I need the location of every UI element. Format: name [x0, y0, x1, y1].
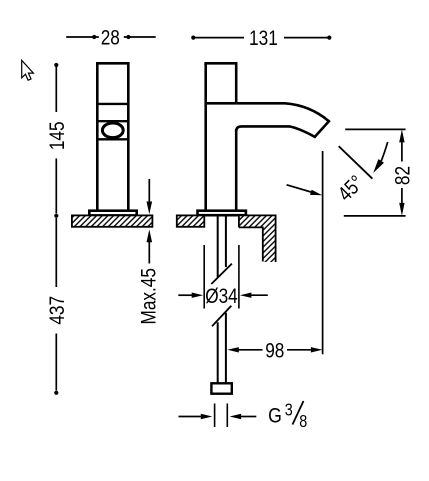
- svg-text:82: 82: [392, 166, 415, 185]
- svg-text:G: G: [268, 404, 282, 428]
- svg-text:Max.45: Max.45: [138, 268, 161, 324]
- svg-text:98: 98: [265, 340, 284, 363]
- svg-text:437: 437: [46, 296, 69, 325]
- svg-text:28: 28: [101, 27, 120, 50]
- svg-text:8: 8: [299, 412, 307, 432]
- svg-text:145: 145: [46, 121, 69, 150]
- svg-text:Ø34: Ø34: [205, 285, 238, 308]
- svg-text:131: 131: [249, 28, 278, 51]
- svg-text:3: 3: [285, 400, 293, 420]
